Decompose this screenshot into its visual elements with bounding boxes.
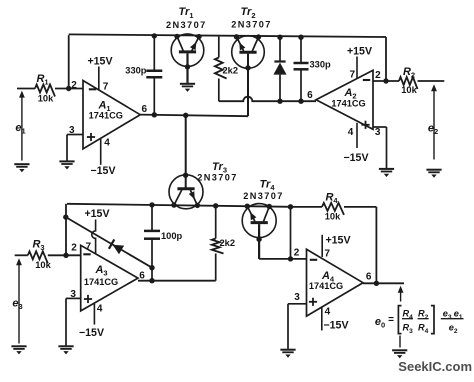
svg-text:10k: 10k xyxy=(325,211,341,221)
node: Tr3 collector junction xyxy=(183,113,188,118)
svg-text:2: 2 xyxy=(71,242,77,253)
svg-text:=: = xyxy=(388,315,394,326)
wire: Tr2 base lead down to A1 output net xyxy=(247,54,249,116)
resistor 2k2-b body xyxy=(212,239,224,254)
svg-text:+15V: +15V xyxy=(347,46,372,58)
capacitor C3 100p bottom lead xyxy=(151,239,153,281)
wire: A4 output e0 xyxy=(363,282,404,284)
resistor 2k2 body xyxy=(215,58,227,79)
svg-text:2N3707: 2N3707 xyxy=(197,172,238,182)
svg-text:1741CG: 1741CG xyxy=(84,277,118,287)
diode D2 cathode bar xyxy=(109,239,114,248)
svg-text:−15V: −15V xyxy=(323,320,348,332)
node: A3 pin 2 junction xyxy=(63,253,68,258)
wire: A1 pin 4 supply lead xyxy=(100,138,102,165)
resistor R4 left lead xyxy=(291,206,323,208)
wire: vertical from A1 pin2 node up to top rail xyxy=(68,35,70,88)
node: 100p cap top junction xyxy=(149,202,154,207)
op-amp A4 plus sign xyxy=(309,301,317,303)
wire: 2k2 bottom to A2 output pin 6 with crossover hop xyxy=(219,97,316,102)
svg-text:1741CG: 1741CG xyxy=(89,110,123,120)
op-amp A4 triangle xyxy=(307,249,364,316)
op-amp A3 triangle xyxy=(81,245,138,311)
ground for A3 pin 3 xyxy=(58,345,73,347)
svg-text:+15V: +15V xyxy=(87,55,112,67)
svg-text:2: 2 xyxy=(375,70,381,81)
diode D2 diagonal feedback wire xyxy=(66,217,152,268)
diode D1 triangle xyxy=(273,63,286,75)
capacitor C1 330p top lead xyxy=(153,36,155,71)
svg-text:6: 6 xyxy=(139,270,145,281)
capacitor C3 100p plates xyxy=(144,230,160,233)
resistor 2k2 top lead xyxy=(218,37,220,58)
wire: e0 arrow tail to ground xyxy=(399,336,401,348)
svg-text:6: 6 xyxy=(142,104,148,115)
resistor R1 right lead to A1 pin 2 xyxy=(55,88,83,90)
diode D2 triangle xyxy=(113,245,125,255)
input arrow e3 xyxy=(16,258,22,265)
ground for Tr1 xyxy=(180,83,195,85)
wire: A3 pin 3 lead xyxy=(66,297,81,299)
input arrow e1 xyxy=(19,91,25,98)
wire: A4 pin 7 supply lead xyxy=(321,235,323,257)
wire: A1 output to Tr2 emitter node xyxy=(140,115,248,117)
ground for e2 xyxy=(426,169,441,171)
wire: A4 pin 3 lead xyxy=(288,303,307,305)
svg-text:10k: 10k xyxy=(401,85,417,95)
svg-text:10k: 10k xyxy=(35,260,51,270)
svg-text:100p: 100p xyxy=(161,231,183,241)
wire: middle net from A3 pin2 branch to R4 junction xyxy=(67,204,291,207)
resistor R2 right lead output e2 xyxy=(418,80,445,82)
wire: A1 pin 7 supply lead xyxy=(98,67,100,91)
resistor R3 body xyxy=(28,251,48,263)
bracket right of formula xyxy=(431,306,434,334)
svg-text:330p: 330p xyxy=(125,66,147,76)
svg-text:4: 4 xyxy=(348,127,354,138)
svg-text:SeekIC.com: SeekIC.com xyxy=(398,359,472,374)
capacitor C3 100p top lead xyxy=(151,205,153,231)
capacitor C1 330p plates xyxy=(146,70,162,73)
transistor Tr2 xyxy=(232,36,265,69)
svg-text:1741CG: 1741CG xyxy=(309,281,343,291)
op-amp A2 plus sign xyxy=(361,124,369,126)
svg-text:7: 7 xyxy=(103,82,109,93)
wire: vertical from top rail down to A2 pin2 node xyxy=(385,37,387,81)
resistor R1 body xyxy=(35,85,55,97)
svg-text:3: 3 xyxy=(375,127,381,138)
ground for e1 xyxy=(14,163,29,165)
wire: R4 junction down to A4 pin 2 xyxy=(290,207,292,259)
diode D1 bottom lead xyxy=(279,75,281,102)
node: 2k2 bottom-resistor top junction xyxy=(213,203,218,208)
node: diode bottom junction xyxy=(277,99,282,104)
svg-text:−15V: −15V xyxy=(90,165,115,177)
wire: Tr1 base lead to ground xyxy=(186,53,188,83)
ground for A4 pin 3 xyxy=(280,349,295,351)
wire: A3 pin 7 supply lead with hop over diode xyxy=(92,220,96,254)
svg-text:+15V: +15V xyxy=(84,208,109,220)
diode D1 cathode bar xyxy=(274,60,285,62)
resistor R1 left lead and input wire xyxy=(17,88,35,90)
wire: A3 pin 4 supply lead xyxy=(93,304,95,325)
op-amp A1 plus sign xyxy=(87,136,95,138)
node: A1 pin2 junction xyxy=(66,86,71,91)
wire: A1 pin 3 lead xyxy=(67,134,83,136)
capacitor C2 330p bottom lead xyxy=(300,69,302,101)
svg-text:2N3707: 2N3707 xyxy=(166,20,207,30)
svg-text:4: 4 xyxy=(104,137,110,148)
transistor Tr3 xyxy=(169,175,203,209)
output arrow e0 xyxy=(398,286,404,293)
svg-text:2: 2 xyxy=(294,248,300,259)
transistor Tr1 xyxy=(171,34,204,67)
node: 330p cap top junction xyxy=(152,33,157,38)
resistor 2k2-b bottom lead xyxy=(215,254,217,281)
ground for e0 xyxy=(392,349,407,351)
wire: Tr3 collector lead from A1 output net xyxy=(185,115,187,188)
ground for A1 pin 3 xyxy=(59,160,74,162)
svg-text:1741CG: 1741CG xyxy=(331,99,365,109)
op-amp A4 minus sign xyxy=(310,259,317,261)
svg-text:4: 4 xyxy=(325,307,331,318)
resistor R3 left lead and input wire xyxy=(15,254,28,256)
svg-text:−15V: −15V xyxy=(79,327,104,339)
op-amp A2 minus sign xyxy=(363,79,370,81)
svg-text:7: 7 xyxy=(86,241,92,252)
node: A2 pin 2 junction xyxy=(383,78,388,83)
wire: A2 pin 2 to R2 xyxy=(373,80,399,82)
resistor 2k2-b top lead xyxy=(215,206,217,239)
op-amp A3 minus sign xyxy=(83,253,90,255)
wire: A3 output to 2k2 bottom corner xyxy=(138,280,216,282)
svg-text:4: 4 xyxy=(97,304,103,315)
capacitor C2 330p top lead xyxy=(300,37,302,63)
bracket left of formula xyxy=(398,306,401,334)
capacitor C2 330p plates xyxy=(294,62,309,65)
op-amp A2 triangle xyxy=(316,70,373,129)
resistor R4 body xyxy=(322,203,344,215)
svg-text:2N3707: 2N3707 xyxy=(231,20,272,30)
ground for A2 pin 3 xyxy=(379,168,394,170)
op-amp A1 minus sign xyxy=(89,88,96,90)
svg-text:2k2: 2k2 xyxy=(223,66,239,76)
transistor Tr4 xyxy=(242,204,276,238)
node: R4 left junction xyxy=(288,204,293,209)
wire: A2 pin 7 supply lead xyxy=(356,57,358,80)
svg-text:330p: 330p xyxy=(310,60,332,70)
resistor R4 right lead and down to A4 output xyxy=(344,206,376,208)
svg-text:+15V: +15V xyxy=(325,234,350,246)
svg-text:−15V: −15V xyxy=(343,152,368,164)
wire: A2 pin 3 to ground xyxy=(373,126,387,128)
resistor R3 right lead to A3 pin 2 xyxy=(48,254,81,256)
ground for e3 xyxy=(11,345,26,347)
diode D1 top lead xyxy=(279,37,281,61)
svg-text:7: 7 xyxy=(350,69,356,80)
op-amp A3 plus sign xyxy=(84,298,92,300)
node: 330p cap bottom junction xyxy=(152,112,157,117)
wire: A2 pin 4 supply lead xyxy=(356,123,358,148)
svg-text:6: 6 xyxy=(307,90,313,101)
svg-text:2N3707: 2N3707 xyxy=(243,191,284,201)
wire: A4 pin 4 supply lead xyxy=(321,307,323,330)
capacitor C1 330p bottom lead xyxy=(153,77,155,115)
svg-text:6: 6 xyxy=(366,271,372,282)
node: A4 output junction xyxy=(374,281,379,286)
resistor 2k2 bottom lead xyxy=(218,79,220,102)
resistor R2 body xyxy=(399,77,418,89)
wire: A3 pin2 node up to middle net xyxy=(65,204,67,256)
op-amp A1 triangle xyxy=(83,81,140,149)
svg-text:10k: 10k xyxy=(38,93,54,103)
node: diode D2 junction on 100p lead xyxy=(149,265,154,270)
node: diode D2 anode junction xyxy=(63,214,68,219)
node: A3 output junction xyxy=(149,278,154,283)
node: 330p right cap bottom junction xyxy=(298,99,303,104)
svg-text:7: 7 xyxy=(324,249,330,260)
output arrow e2 xyxy=(431,84,437,91)
svg-text:2: 2 xyxy=(71,80,77,91)
wire: top supply rail xyxy=(69,34,386,37)
wire: Tr4 base lead down to A4 pin 2 xyxy=(258,224,260,259)
svg-text:2k2: 2k2 xyxy=(220,238,236,248)
svg-text:3: 3 xyxy=(294,292,300,303)
